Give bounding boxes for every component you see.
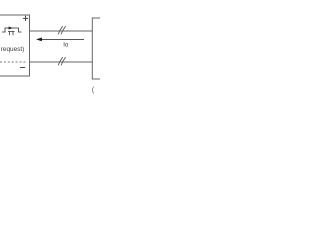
svg-text:request): request) xyxy=(1,46,24,53)
plus terminal label xyxy=(23,16,28,21)
label "request)" xyxy=(1,46,24,53)
wire: negative lead (bottom) xyxy=(30,61,93,63)
wire break marks (top wire) xyxy=(58,26,65,34)
wire break marks (bottom wire) xyxy=(58,57,65,65)
dashed negative return wire inside box xyxy=(0,61,27,63)
battery pack box B1 (left, clipped at image edge) xyxy=(0,15,30,76)
label Io xyxy=(63,42,69,48)
wire: positive lead (top) xyxy=(30,30,93,32)
battery cell symbol with current loop xyxy=(2,28,22,36)
current direction arrow inside battery xyxy=(9,27,13,30)
svg-text:(: ( xyxy=(92,85,95,94)
svg-text:Io: Io xyxy=(63,42,69,48)
current arrow Io xyxy=(36,38,84,42)
caption "(" below right box xyxy=(92,85,95,94)
minus terminal label xyxy=(20,67,25,69)
charger box U1 (right, clipped at image edge) xyxy=(92,18,100,79)
